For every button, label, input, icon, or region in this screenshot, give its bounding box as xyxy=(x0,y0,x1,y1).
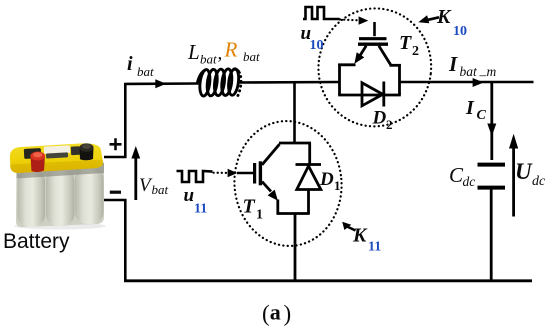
transistor T2 (IGBT) gate lead xyxy=(373,22,376,36)
svg-text:dc: dc xyxy=(463,174,476,189)
svg-text:dc: dc xyxy=(532,174,546,189)
transistor T1 gate bar xyxy=(253,163,256,184)
svg-text:_: _ xyxy=(479,63,487,78)
transistor T1 collector leg (up) xyxy=(262,144,280,165)
svg-text:m: m xyxy=(487,64,497,79)
svg-text:R: R xyxy=(224,38,238,62)
transistor T2 emitter arrow xyxy=(354,52,364,64)
wire: top rail coil to T2 loop xyxy=(240,81,341,84)
transistor T1 emitter leg (down) xyxy=(262,182,271,192)
current arrow I_C xyxy=(487,124,496,137)
battery photo xyxy=(10,143,106,229)
svg-text:bat: bat xyxy=(243,49,260,64)
T1 loop: top horizontal wire xyxy=(279,142,311,145)
svg-text:(: ( xyxy=(262,301,270,326)
dotted ellipse K11 boundary xyxy=(229,117,346,251)
diode D1 triangle xyxy=(297,166,321,190)
svg-text:10: 10 xyxy=(310,38,324,53)
wire: battery positive lead to left riser xyxy=(104,84,125,157)
svg-text:1: 1 xyxy=(256,208,263,223)
inductor coil L_bat R_bat xyxy=(197,68,241,96)
svg-text:T: T xyxy=(399,32,412,54)
control arrow into T1 gate xyxy=(228,169,238,177)
pulse glyph u_11 xyxy=(177,171,213,182)
voltage arrow U_dc xyxy=(512,140,515,217)
svg-text:a: a xyxy=(270,300,281,325)
dotted control line u_11 to T1 gate xyxy=(214,172,228,174)
T2 loop: top-left horizontal wire xyxy=(338,63,355,66)
transistor T2 gate bar xyxy=(359,37,387,40)
capacitor C_dc top plate xyxy=(478,163,506,167)
svg-text:L: L xyxy=(187,40,200,64)
diode D2 triangle xyxy=(362,83,383,106)
current arrow I_bat_m xyxy=(473,78,484,87)
minus terminal label xyxy=(110,191,121,194)
transistor T2 emitter leg (left) xyxy=(358,46,366,59)
svg-text:10: 10 xyxy=(453,24,467,39)
T2 loop: top-right horizontal wire xyxy=(390,64,401,67)
capacitor C_dc bottom plate xyxy=(478,186,506,190)
wire: capacitor branch upper vertical with I_C arrow xyxy=(490,82,493,160)
node: junction to T1 branch xyxy=(293,83,296,144)
svg-text:I: I xyxy=(448,52,458,76)
wire: top rail T2 to capacitor junction and right stub xyxy=(399,81,534,84)
svg-text:2: 2 xyxy=(412,44,419,59)
svg-text:bat: bat xyxy=(200,52,217,67)
svg-text:I: I xyxy=(465,97,475,119)
svg-text:bat: bat xyxy=(152,182,169,197)
svg-text:C: C xyxy=(477,108,487,123)
T2 loop: left vertical wire xyxy=(338,64,341,96)
dotted control line u_10 to T2 gate xyxy=(340,18,358,21)
voltage arrow V_bat xyxy=(134,150,137,200)
T1 loop: right vertical below diode xyxy=(307,190,310,215)
svg-text:): ) xyxy=(284,301,292,326)
label K_11 with arrow xyxy=(347,227,356,231)
T1 loop: right vertical to diode xyxy=(308,143,311,164)
transistor T1 emitter arrow xyxy=(268,190,278,201)
transistor T2 channel bar xyxy=(358,43,388,46)
plus terminal label xyxy=(110,138,122,150)
transistor T1 channel bar xyxy=(259,161,262,185)
svg-text:i: i xyxy=(127,53,133,75)
current arrow i_bat on top rail xyxy=(155,79,166,88)
wire: capacitor branch lower vertical xyxy=(490,189,493,282)
svg-text:Battery: Battery xyxy=(3,230,70,253)
pulse glyph u_10 xyxy=(303,7,340,19)
wire: T1 bottom to bottom rail xyxy=(294,214,297,282)
svg-text:U: U xyxy=(515,159,533,184)
wire: bottom rail xyxy=(124,279,532,282)
svg-text:K: K xyxy=(352,225,368,247)
svg-text:bat: bat xyxy=(460,64,479,79)
svg-text:T: T xyxy=(243,196,256,218)
svg-text:11: 11 xyxy=(368,240,381,255)
svg-text:u: u xyxy=(184,185,195,206)
T1 loop: bottom horizontal wire xyxy=(277,212,310,215)
diode D2 cathode bar xyxy=(382,82,385,107)
svg-text:D: D xyxy=(319,169,334,190)
wire: top rail left segment (riser corner to coil) xyxy=(124,82,198,85)
dotted ellipse K10 boundary xyxy=(312,2,438,133)
wire: battery negative lead to bottom rail xyxy=(104,200,125,282)
transistor T2 collector leg (right) xyxy=(379,46,391,65)
svg-text:,: , xyxy=(218,43,223,64)
svg-text:bat: bat xyxy=(137,64,154,79)
diode D1 cathode bar xyxy=(296,163,322,166)
svg-text:K: K xyxy=(436,6,452,28)
T2 loop: right vertical wire xyxy=(398,64,401,95)
control arrow into T2 gate xyxy=(359,16,369,24)
label K_10 with arrow xyxy=(428,17,439,20)
svg-text:1: 1 xyxy=(334,178,341,193)
T2 loop: bottom horizontal wire xyxy=(338,94,401,97)
T1 loop: lower-left vertical stub xyxy=(276,200,279,215)
svg-text:11: 11 xyxy=(194,202,207,217)
transistor T1 (IGBT) gate lead xyxy=(237,172,254,175)
